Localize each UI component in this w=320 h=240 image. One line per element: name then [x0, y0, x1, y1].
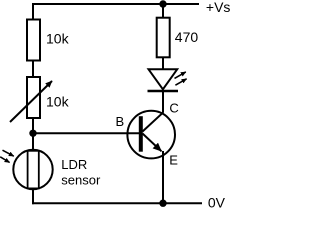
- svg-text:E: E: [169, 152, 178, 167]
- svg-text:sensor: sensor: [61, 173, 101, 188]
- svg-text:B: B: [116, 114, 125, 129]
- svg-text:0V: 0V: [208, 195, 226, 210]
- svg-text:470: 470: [175, 29, 199, 45]
- svg-text:LDR: LDR: [61, 157, 87, 172]
- svg-text:10k: 10k: [46, 31, 70, 47]
- svg-text:+Vs: +Vs: [206, 0, 230, 15]
- svg-text:C: C: [169, 101, 178, 116]
- svg-text:10k: 10k: [46, 93, 70, 109]
